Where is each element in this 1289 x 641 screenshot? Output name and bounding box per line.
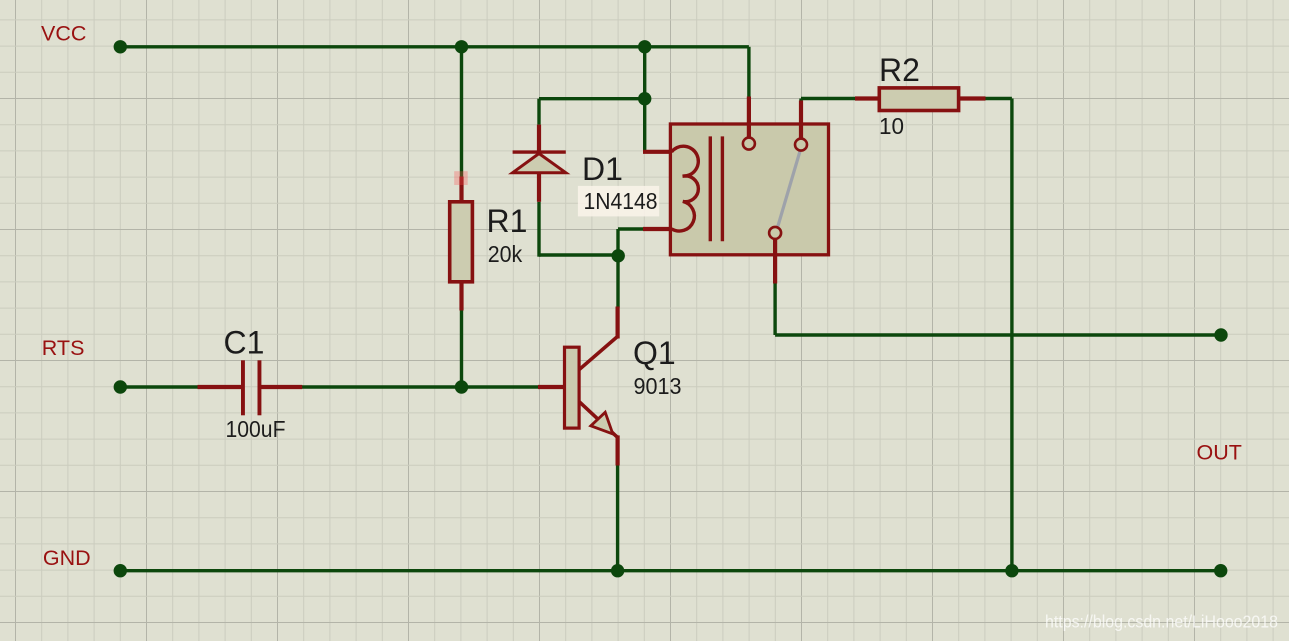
svg-text:10: 10 xyxy=(879,113,904,139)
svg-text:R2: R2 xyxy=(879,52,920,88)
svg-text:GND: GND xyxy=(43,546,91,570)
svg-text:100uF: 100uF xyxy=(226,416,286,442)
svg-text:https://blog.csdn.net/LiHooo20: https://blog.csdn.net/LiHooo2018 xyxy=(1045,612,1278,632)
svg-text:R1: R1 xyxy=(487,203,528,239)
svg-text:RTS: RTS xyxy=(42,336,85,360)
svg-text:VCC: VCC xyxy=(41,22,86,46)
svg-text:OUT: OUT xyxy=(1197,441,1242,465)
svg-text:9013: 9013 xyxy=(634,373,682,399)
svg-text:C1: C1 xyxy=(224,325,265,361)
svg-text:Q1: Q1 xyxy=(633,335,676,371)
svg-text:D1: D1 xyxy=(582,151,623,187)
svg-text:1N4148: 1N4148 xyxy=(584,188,658,214)
svg-text:20k: 20k xyxy=(488,241,523,267)
